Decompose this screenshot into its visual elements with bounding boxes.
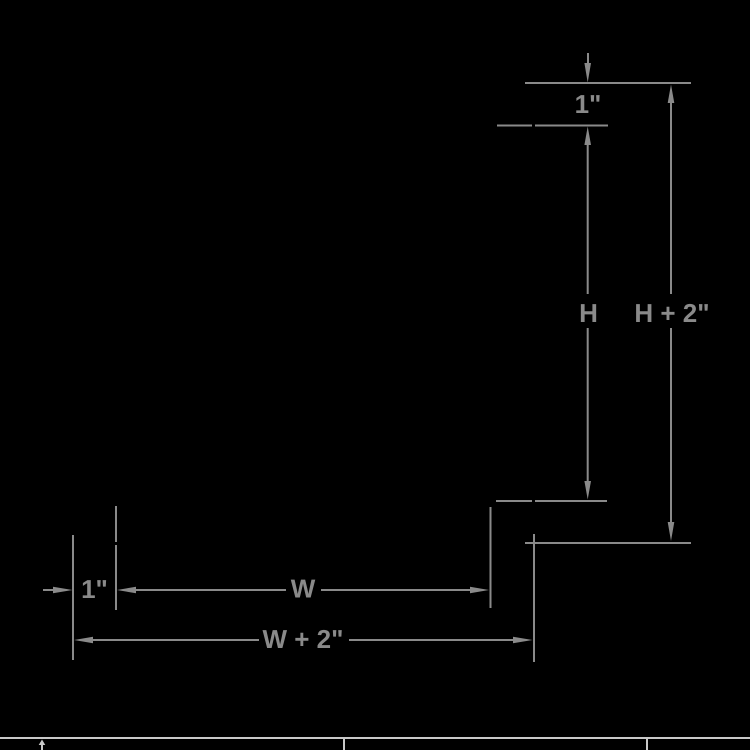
- extension line: inner-rect bottom edge left segment (y=501): [496, 500, 532, 502]
- bottom table: column divider at x=647: [646, 739, 648, 750]
- leader arrow: top 1 inch, arrowhead pointing down: [584, 63, 591, 83]
- dimension line W+2: right stem: [349, 639, 513, 641]
- extension line: outer-rect right edge (x=534): [533, 534, 535, 662]
- extension line: inner-rect top edge left segment (y=125.5): [497, 125, 532, 127]
- svg-text:1": 1": [81, 574, 108, 604]
- extension line: inner-rect left edge upper segment (x=116): [115, 506, 117, 542]
- dimension line H: top arrowhead pointing up: [584, 127, 591, 146]
- extension line: inner-rect top edge right segment (y=125.5): [535, 125, 608, 127]
- dimension line H: upper stem: [587, 144, 589, 294]
- svg-text:H: H: [579, 298, 598, 328]
- extension line: inner-rect left edge lower segment (x=116): [115, 545, 117, 610]
- extension line: inner-rect right edge (x=490.5): [490, 507, 492, 608]
- dimension line H+2: upper stem: [670, 102, 672, 294]
- separator line: bottom table top border (y=738): [0, 737, 750, 739]
- leader arrow: left 1 inch, arrowhead pointing right: [53, 587, 73, 594]
- dimension line H: bottom arrowhead pointing down: [584, 481, 591, 500]
- extension line: outer-rect left edge (x=73): [72, 535, 74, 660]
- dimension line W: left arrowhead pointing left: [117, 587, 136, 594]
- bottom arrow: up arrowhead at x=42: [39, 740, 46, 746]
- dimension line W: left stem: [135, 589, 286, 591]
- bottom table: column divider at x=344: [343, 739, 345, 750]
- dimension line H: lower stem: [587, 328, 589, 481]
- svg-text:1": 1": [575, 89, 602, 119]
- extension line: outer-rect top edge (y=83): [525, 82, 691, 84]
- svg-text:W: W: [291, 574, 316, 604]
- dimension line W: right arrowhead pointing right: [470, 587, 489, 594]
- extension line: outer-rect bottom edge (y=543): [525, 542, 691, 544]
- svg-text:H + 2": H + 2": [634, 298, 709, 328]
- svg-text:W + 2": W + 2": [263, 624, 344, 654]
- leader arrow: left 1 inch, stem: [43, 589, 54, 591]
- dimension line H+2: top arrowhead pointing up: [668, 85, 675, 104]
- dimension line W+2: right arrowhead pointing right: [513, 637, 533, 644]
- leader arrow: top 1 inch, stem: [587, 53, 589, 64]
- bottom arrow: stem: [41, 744, 43, 750]
- dimension line H+2: lower stem: [670, 328, 672, 523]
- dimension line W: right stem: [321, 589, 470, 591]
- dimension line H+2: bottom arrowhead pointing down: [668, 522, 675, 541]
- extension line: inner-rect bottom edge right segment (y=501): [535, 500, 607, 502]
- dimension line W+2: left arrowhead pointing left: [74, 637, 93, 644]
- dimension line W+2: left stem: [92, 639, 259, 641]
